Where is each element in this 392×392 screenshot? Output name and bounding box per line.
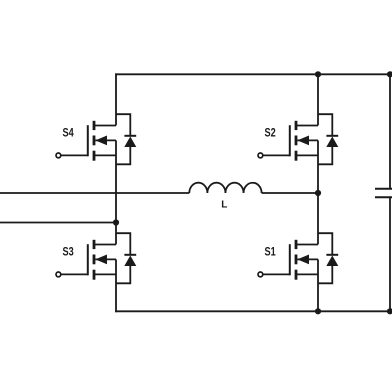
wire left leg: top rail to S4 drain: [115, 73, 117, 125]
wire right leg: S1 source to bottom rail: [317, 259, 319, 311]
wire bottom rail (DC bus -): [115, 310, 392, 312]
transistor S4: [61, 121, 116, 161]
svg-text:S4: S4: [63, 128, 75, 140]
wire left leg: S4 source to S3 drain (node A): [115, 140, 117, 244]
wire inductor to node B: [262, 192, 318, 194]
capacitor C bottom plate: [375, 196, 392, 198]
transistor S2: [263, 121, 318, 161]
inductor L: [189, 183, 261, 193]
junction node B / inductor: [315, 190, 321, 196]
junction top rail / capacitor: [387, 71, 392, 77]
junction node A / AC lower wire: [113, 219, 119, 225]
wire left leg: S3 source to bottom rail: [115, 259, 117, 312]
body diode D2 of S2: [318, 114, 338, 164]
body diode D4 of S4: [116, 114, 136, 164]
gate terminal of S4: [56, 153, 61, 158]
transistor S1: [263, 240, 318, 280]
gate terminal of S1: [258, 272, 263, 277]
body diode D3 of S3: [116, 233, 136, 283]
body diode D1 of S1: [318, 233, 338, 283]
wire right leg: top rail to S2 drain: [317, 74, 319, 125]
junction bottom rail / capacitor: [387, 308, 392, 314]
wire top rail (DC bus +): [115, 73, 392, 75]
svg-text:S3: S3: [63, 247, 74, 259]
svg-text:S1: S1: [265, 247, 277, 259]
gate terminal of S3: [56, 272, 61, 277]
junction top rail / S2 drain: [315, 71, 321, 77]
wire right leg: S2 source to S1 drain (node B): [317, 140, 319, 244]
gate terminal of S2: [258, 153, 263, 158]
wire AC terminal lower to node A: [0, 222, 116, 224]
svg-text:L: L: [221, 200, 227, 211]
capacitor C (DC link) top plate: [375, 188, 392, 190]
wire capacitor bottom lead: [389, 197, 391, 311]
junction bottom rail / S1 source: [315, 308, 321, 314]
transistor S3: [61, 240, 116, 280]
wire AC terminal upper to inductor: [0, 192, 189, 194]
svg-text:S2: S2: [265, 128, 276, 140]
wire capacitor top lead: [389, 74, 391, 188]
